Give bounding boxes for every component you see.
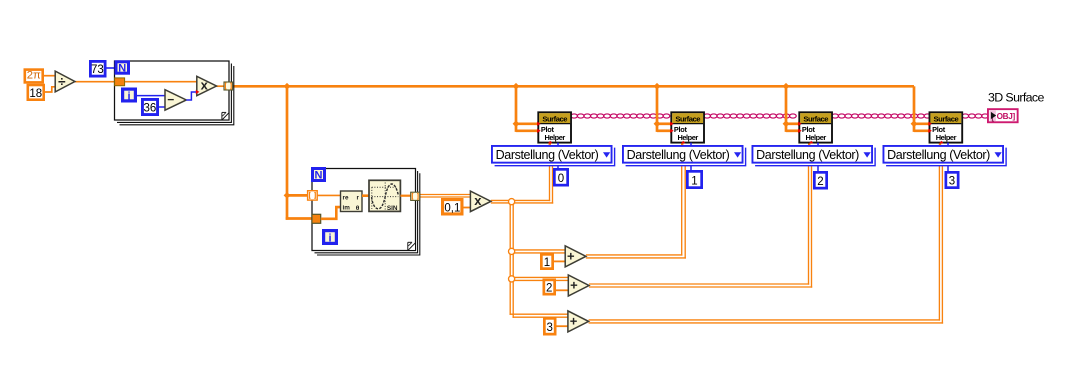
constant 18 [28,85,44,100]
wire 1D array feed to helper U1 inputs [513,83,540,132]
svg-text:N: N [315,170,323,182]
wire 2D array: add +2 output to helper U3 bottom [589,143,812,288]
i terminal loop2 [324,231,337,245]
wire 1D array drop to loop2 [284,83,313,220]
wire 1D array feed to helper U2 inputs [654,83,673,132]
svg-text:+: + [570,313,578,328]
wire 2D array: trunk to add node +2 [510,277,569,280]
svg-text:18: 18 [29,88,42,100]
N terminal loop2 [313,169,325,182]
svg-text:x: x [201,78,209,93]
svg-text:Surface: Surface [934,114,959,123]
tunnel (auto-indexing) loop2 output [411,192,420,200]
wire loop1 tunnel to multiply (scalar) [125,81,198,83]
enum constant Darstellung (Vektor) #3 [883,146,1006,166]
constant 73 [90,61,105,76]
svg-text:Helper: Helper [806,133,827,142]
svg-text:OBJ]: OBJ] [997,112,1016,121]
add node +3 [568,311,589,332]
svg-text:Surface: Surface [542,114,567,123]
svg-text:SIN: SIN [387,205,398,212]
tunnel (solid, last value) loop1 left [115,78,125,86]
svg-text:Helper: Helper [678,133,699,142]
junction ring node A [509,199,515,205]
svg-text:x: x [474,193,482,208]
constant 2pi [25,70,43,83]
wire multiply to loop1 output tunnel [217,85,225,87]
subVI Surface Plot Helper U4 [928,112,962,143]
constant 2 (offset) [544,280,555,295]
wire 36 to subtract [159,106,166,108]
wire subtract to multiply [186,92,196,100]
wire 2D array: add +3 output to helper U4 bottom [589,143,944,324]
wire 3D-object reference chain: helper U1 to helper U2 [571,114,670,118]
wire 1D array feed to helper U4 inputs (bus end) [911,86,931,132]
svg-text:+: + [570,278,578,293]
svg-text:Darstellung (Vektor): Darstellung (Vektor) [756,148,859,162]
wire i to subtract [137,95,166,97]
junction ring node B [509,248,515,254]
wire 0,1 to multiply [464,207,472,209]
indicator OBJ (3D picture reference) [988,109,1018,122]
tunnel (auto-indexing) loop2 left input [308,191,318,200]
subVI Surface Plot Helper U1 [537,112,571,143]
svg-text:3: 3 [546,322,552,334]
svg-text:i: i [127,90,130,102]
subVI Surface Plot Helper U2 [670,112,704,143]
svg-text:1: 1 [691,176,697,188]
wire 2D array: trunk bottom corner to add node +3 [510,314,569,317]
svg-text:1: 1 [544,257,550,269]
label 3D Surface [988,91,1045,105]
enum constant Darstellung (Vektor) #1 [623,146,746,166]
multiply node loop1 [197,76,217,95]
svg-text:re: re [343,194,349,201]
svg-text:θ: θ [356,205,360,212]
svg-text:Surface: Surface [675,114,700,123]
polar-to-complex node (re r / im theta) [341,191,363,212]
wire 3D-object reference chain: helper U4 to OBJ indicator [962,114,989,118]
wire 2D array: multiply output to helper U1 bottom [491,143,553,204]
tunnel (auto-indexing) loop1 output [224,82,233,90]
svg-text:N: N [118,62,126,74]
svg-text:−: − [167,92,174,106]
svg-text:3: 3 [949,176,955,188]
wire 1D array feed to helper U3 inputs [783,83,801,132]
svg-text:2: 2 [546,282,552,294]
constant 3 (offset) [544,318,555,334]
constant 2 (plot id) [814,143,826,189]
svg-text:36: 36 [144,103,157,115]
junction ring node C [509,276,515,282]
svg-text:0: 0 [558,173,564,185]
wire 1D array main horizontal bus [232,85,914,88]
constant 1 (plot id) [687,143,701,188]
svg-text:Surface: Surface [803,114,828,123]
enum constant Darstellung (Vektor) #2 [752,146,875,166]
wire 2D array: add +1 output to helper U2 bottom [586,143,686,259]
enum constant Darstellung (Vektor) #0 [492,146,615,166]
subVI Surface Plot Helper U3 [798,112,832,143]
svg-text:0,1: 0,1 [444,203,460,215]
wire SIN to output tunnel [400,195,411,197]
svg-text:3D Surface: 3D Surface [988,91,1045,105]
wire tunnel to re input [317,194,341,196]
wire 3D-object reference chain: helper U3 to helper U4 [832,114,931,118]
svg-text:2: 2 [817,176,823,188]
svg-text:i: i [328,233,331,245]
add node +2 [568,275,589,296]
svg-text:+: + [567,248,575,263]
tunnel (solid, last value) loop2 left input [312,214,321,223]
wire 2pi constant to divide [44,75,56,77]
for loop 1 frame [115,61,234,125]
svg-text:2π: 2π [27,70,41,82]
constant 3 (plot id) [946,143,958,188]
svg-text:Helper: Helper [936,133,957,142]
coercion dot multiply input [196,90,200,94]
svg-text:Darstellung (Vektor): Darstellung (Vektor) [627,148,730,162]
wire divide output to loop1 tunnel [75,81,115,83]
svg-text:Helper: Helper [545,133,566,142]
for loop 2 frame [312,169,420,256]
wire 1 to add [554,260,566,262]
add node +1 [565,246,586,267]
wire 2D array: vertical trunk to add nodes [510,201,513,318]
svg-text:Darstellung (Vektor): Darstellung (Vektor) [887,148,990,162]
subtract node [165,90,186,111]
wire 2D array: trunk to add node +1 [510,250,565,253]
SIN function node [369,180,400,212]
svg-text:73: 73 [91,64,104,76]
svg-text:im: im [343,205,351,212]
svg-text:÷: ÷ [58,74,66,89]
constant 36 [142,99,157,114]
wire 3D-object reference chain: helper U2 to helper U3 [704,114,797,118]
wire 18 constant to divide [45,87,56,92]
wire complex to SIN [362,194,370,197]
constant 0 (plot id) [554,143,567,186]
wire solid tunnel to im input [321,207,341,219]
i terminal loop1 [123,89,136,102]
wire 2 to add [556,289,569,291]
multiply node (scale) [470,191,491,212]
N terminal loop1 [116,62,129,75]
wire 73 to N terminal [107,67,116,69]
divide node [55,71,75,92]
svg-text:Darstellung (Vektor): Darstellung (Vektor) [496,148,599,162]
constant 1 (offset) [541,254,552,269]
wire 2D array: loop2 tunnel to multiply [420,195,471,198]
constant 0,1 [443,200,462,215]
wire 3 to add [557,325,570,327]
